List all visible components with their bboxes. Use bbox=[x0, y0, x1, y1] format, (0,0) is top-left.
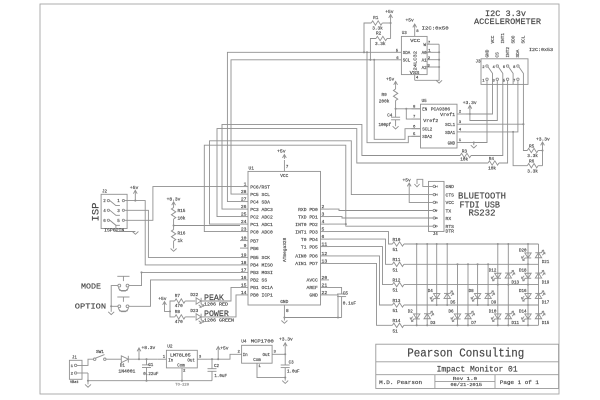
wire R7 to D22 bbox=[185, 300, 195, 302]
wire LED column D6 bbox=[457, 264, 459, 325]
svg-text:8: 8 bbox=[286, 309, 289, 314]
svg-text:+5v: +5v bbox=[406, 18, 415, 24]
wire ISP pin1 MISO bbox=[125, 201, 240, 265]
svg-text:Com: Com bbox=[253, 359, 261, 363]
wire LED rail 4 bbox=[404, 304, 539, 306]
U1 pin 24 PC1 ADC1 bbox=[240, 223, 248, 225]
svg-text:100pf: 100pf bbox=[379, 123, 392, 128]
resistor R3 10k bbox=[460, 153, 471, 157]
wire U3 address pins to ground bbox=[415, 44, 439, 80]
ground symbol below U1 bbox=[283, 318, 285, 321]
wire U1 PD4 to rail 2 bbox=[329, 239, 392, 264]
svg-text:PB6: PB6 bbox=[250, 246, 259, 252]
capacitor C5 0.1uF bbox=[337, 293, 346, 295]
svg-text:AREF: AREF bbox=[307, 285, 318, 291]
svg-text:R1: R1 bbox=[373, 16, 379, 21]
LED D4 bbox=[430, 294, 440, 302]
U1 pin 1 PC6/RST bbox=[240, 186, 248, 188]
svg-text:Vref1: Vref1 bbox=[440, 113, 456, 118]
wire LED column D7 bbox=[467, 264, 469, 325]
connector J4 FTDI bbox=[429, 181, 445, 231]
svg-text:D10: D10 bbox=[489, 310, 497, 314]
U3 pin 4 VSS bbox=[414, 75, 416, 81]
U2 pin 1 In bbox=[157, 358, 166, 360]
svg-text:7: 7 bbox=[286, 165, 289, 170]
svg-text:PB7: PB7 bbox=[250, 238, 259, 244]
U5 pin 7 Vref2 bbox=[412, 118, 421, 120]
svg-text:+3.3v: +3.3v bbox=[463, 100, 477, 106]
U4 pin 3 Out bbox=[272, 353, 285, 355]
wire EN line bbox=[396, 108, 421, 110]
svg-text:Impact Monitor 01: Impact Monitor 01 bbox=[437, 366, 518, 375]
U3 pin 7 W bbox=[427, 43, 439, 45]
svg-text:D6: D6 bbox=[449, 310, 455, 314]
node rail 3 junctions bbox=[497, 284, 499, 286]
node R5 junction bbox=[541, 149, 543, 151]
svg-text:PB4 MISO: PB4 MISO bbox=[250, 263, 273, 269]
svg-text:D22: D22 bbox=[190, 293, 198, 298]
J3 pin SCL bbox=[517, 65, 519, 67]
svg-text:Page 1 of 1: Page 1 of 1 bbox=[500, 380, 539, 386]
resistor R4 10k bbox=[488, 161, 499, 165]
U3 pin 1 A0 bbox=[427, 51, 439, 53]
svg-text:D12: D12 bbox=[489, 270, 497, 274]
wire R3 to J3 INT1 bbox=[471, 84, 503, 155]
svg-text:M.D. Pearson: M.D. Pearson bbox=[379, 380, 422, 386]
wire SCL 5V side to U5 SCL2 bbox=[374, 60, 420, 140]
wire U1 PD1 to J4 RX bbox=[329, 217, 433, 218]
node SDA drop junction bbox=[366, 51, 368, 53]
svg-text:D13: D13 bbox=[512, 281, 520, 285]
switch SW3 MODE button bbox=[117, 275, 129, 277]
J3 pin CS bbox=[496, 78, 498, 80]
svg-text:MODE: MODE bbox=[81, 283, 101, 291]
svg-text:D8: D8 bbox=[469, 290, 475, 294]
svg-text:27: 27 bbox=[241, 197, 247, 203]
svg-text:0.1uF: 0.1uF bbox=[343, 301, 357, 306]
U1 pin 18 PB4 MISO bbox=[240, 264, 248, 266]
wire J4 GND hook to ground bbox=[417, 179, 433, 186]
svg-text:17: 17 bbox=[241, 267, 247, 273]
wire J3 GND to ground bbox=[474, 84, 487, 142]
+5v supply at pullups bbox=[389, 15, 393, 18]
U2 pin 3 Out bbox=[197, 358, 207, 360]
LED D11 bbox=[505, 311, 515, 319]
wire ISP pin5 RST bbox=[125, 187, 240, 221]
U1 pin 2 RXD PD0 bbox=[321, 208, 330, 210]
svg-text:D7: D7 bbox=[471, 322, 477, 326]
wire R8 to D23 bbox=[185, 316, 195, 318]
wire CTS into J4 bbox=[429, 194, 433, 196]
wire RTS into J4 bbox=[429, 225, 433, 227]
svg-text:PB3 MOSI: PB3 MOSI bbox=[250, 270, 273, 276]
svg-text:AVCC: AVCC bbox=[307, 278, 318, 284]
U1 pin 8 GND stub bbox=[283, 305, 285, 318]
wire MODE to OPTION common bbox=[111, 286, 118, 307]
resistor R9 200k bbox=[393, 89, 397, 101]
node R9 EN junction bbox=[395, 108, 397, 110]
wire OPTION to PB2 SS bbox=[129, 280, 240, 306]
wire LED column D2 bbox=[416, 244, 418, 325]
U3 pin 6 SCL bbox=[391, 59, 401, 61]
svg-text:J1: J1 bbox=[72, 357, 78, 361]
svg-text:SCL1: SCL1 bbox=[445, 124, 456, 128]
svg-text:PC3 ADC3: PC3 ADC3 bbox=[250, 207, 273, 213]
svg-text:TXD PD1: TXD PD1 bbox=[298, 214, 318, 220]
svg-text:U3: U3 bbox=[402, 32, 408, 36]
U1 pin 5 INT1 PD3 bbox=[321, 231, 330, 233]
wire +5v to J4 VCC bbox=[409, 187, 433, 202]
svg-text:18: 18 bbox=[241, 260, 247, 266]
svg-text:VCC: VCC bbox=[280, 173, 288, 179]
svg-text:C3: C3 bbox=[289, 362, 295, 366]
node C1 junction bbox=[145, 358, 147, 360]
U1 pin 28 PC5 SCL bbox=[240, 193, 248, 195]
wire SCL1 to J3 bbox=[466, 84, 523, 124]
U2 pin 2 Com bbox=[181, 368, 183, 381]
svg-text:R4: R4 bbox=[489, 157, 495, 162]
svg-text:D2: D2 bbox=[408, 310, 414, 314]
+8.3v supply at divider bbox=[172, 202, 176, 205]
svg-text:AIN1 PD7: AIN1 PD7 bbox=[295, 261, 318, 267]
wire U5 GND to ground bbox=[466, 142, 474, 144]
svg-text:28: 28 bbox=[241, 189, 247, 195]
svg-text:1206 RED: 1206 RED bbox=[204, 302, 228, 308]
+5v supply at U3 bbox=[413, 24, 417, 27]
svg-text:D4: D4 bbox=[428, 290, 434, 294]
node MODE on MOSI line bbox=[140, 271, 142, 273]
svg-text:1N4001: 1N4001 bbox=[118, 370, 136, 374]
wire LED rail 2 bbox=[404, 263, 539, 265]
LED D2 bbox=[410, 314, 420, 322]
svg-text:D14: D14 bbox=[519, 310, 527, 314]
U3 pin 5 SDA bbox=[391, 51, 401, 53]
svg-text:C5: C5 bbox=[343, 292, 349, 297]
svg-text:9: 9 bbox=[244, 243, 247, 249]
svg-text:13: 13 bbox=[322, 258, 328, 264]
regulator U2 LM78L05 bbox=[166, 350, 197, 368]
U3 pin 2 A1 bbox=[427, 59, 439, 61]
svg-text:In: In bbox=[243, 354, 249, 358]
svg-text:D23: D23 bbox=[190, 309, 198, 314]
wire PC3 loop to INT1 bbox=[222, 124, 460, 209]
resistor R12 51 bbox=[392, 282, 404, 286]
svg-text:3.3k: 3.3k bbox=[375, 42, 386, 47]
svg-text:PB2 SS: PB2 SS bbox=[250, 278, 267, 284]
wire U1 PD7 to rail 5 bbox=[329, 263, 392, 325]
svg-text:24: 24 bbox=[241, 219, 247, 225]
svg-text:R11: R11 bbox=[393, 258, 401, 263]
svg-text:R16: R16 bbox=[178, 232, 186, 237]
J4 pin 6 RTS bbox=[433, 225, 435, 227]
svg-text:5: 5 bbox=[322, 227, 325, 233]
svg-text:A2: A2 bbox=[422, 67, 428, 71]
ground symbol at battery bbox=[87, 381, 89, 385]
J3 pin GND bbox=[486, 78, 488, 80]
svg-text:J3: J3 bbox=[476, 61, 482, 65]
U3 pin 8 VCC bbox=[414, 29, 416, 37]
svg-text:D1: D1 bbox=[120, 365, 126, 369]
svg-text:10: 10 bbox=[241, 236, 247, 242]
svg-text:R8: R8 bbox=[175, 310, 181, 315]
svg-text:ATmega328: ATmega328 bbox=[282, 237, 288, 262]
U1 pin 19 PB5 SCK bbox=[240, 256, 248, 258]
wire LED column D15 D17 D19 D21 bbox=[538, 244, 540, 325]
+5v supply at U1 VCC bbox=[283, 155, 287, 158]
svg-text:GND: GND bbox=[446, 184, 455, 190]
svg-text:+5v: +5v bbox=[220, 346, 229, 352]
U1 pin 14 PB0 ICP1 bbox=[240, 294, 248, 296]
svg-text:1206 GREEN: 1206 GREEN bbox=[204, 318, 234, 324]
wire PC1 loop to CTS bbox=[210, 141, 429, 224]
wire LED column D8 bbox=[477, 264, 479, 305]
node rail 4 junctions bbox=[436, 304, 438, 306]
svg-text:MCP1700: MCP1700 bbox=[251, 340, 274, 345]
capacitor C2 1.0uF bbox=[211, 359, 213, 369]
U1 pin 17 PB3 MOSI bbox=[240, 271, 248, 273]
svg-text:VBat: VBat bbox=[70, 381, 79, 385]
ground symbol at U3 bbox=[436, 80, 442, 83]
svg-text:R2: R2 bbox=[376, 32, 382, 37]
resistor R16 1k bbox=[173, 226, 175, 230]
svg-text:51: 51 bbox=[393, 248, 399, 253]
+5v supply at ISP bbox=[133, 190, 137, 193]
U1 pin 4 INT0 PD2 bbox=[321, 223, 330, 225]
wire U1 PD0 to J4 TX bbox=[329, 209, 433, 210]
J4 pin 5 RX bbox=[433, 217, 435, 219]
U1 pin 27 PC4 SDA bbox=[240, 201, 248, 203]
svg-text:RS232: RS232 bbox=[469, 209, 496, 219]
ground symbol below C3 bbox=[284, 378, 286, 381]
svg-text:TX: TX bbox=[446, 208, 452, 214]
svg-text:J4: J4 bbox=[433, 233, 439, 237]
wire CS pullup to 3.3v bbox=[470, 84, 497, 120]
U1 pin 15 PB1 OC1A bbox=[240, 286, 248, 288]
svg-text:+5v: +5v bbox=[277, 149, 286, 155]
LED D19 bbox=[535, 270, 545, 278]
switch SW1 bbox=[94, 358, 96, 360]
svg-text:+8.3v: +8.3v bbox=[167, 197, 181, 203]
svg-text:INT1: INT1 bbox=[501, 33, 506, 44]
svg-text:1.0uF: 1.0uF bbox=[214, 375, 227, 379]
svg-text:J2: J2 bbox=[102, 191, 108, 195]
svg-text:12: 12 bbox=[322, 251, 328, 257]
wire LED column D11 D13 bbox=[507, 244, 509, 325]
svg-text:PC5 SCL: PC5 SCL bbox=[250, 192, 270, 198]
U3 pin 3 A2 bbox=[427, 66, 439, 68]
svg-text:In: In bbox=[168, 360, 174, 364]
+5v supply at status LEDs bbox=[163, 302, 167, 305]
node Vref2 junction bbox=[405, 108, 407, 110]
wire LED column D3 bbox=[426, 244, 428, 325]
U1 pin 11 T1 PD5 bbox=[321, 246, 330, 248]
node INT0 junction bbox=[345, 223, 347, 225]
LED D7 bbox=[465, 311, 475, 319]
svg-text:D15: D15 bbox=[542, 322, 550, 326]
node +8.3v junction bbox=[138, 358, 140, 360]
node OPTION ground junction bbox=[110, 305, 112, 307]
wire SW1 to D1 bbox=[106, 358, 121, 360]
svg-text:16: 16 bbox=[241, 275, 247, 281]
mcu U1 ATmega328 bbox=[248, 171, 321, 305]
U1 pin 20 AVCC bbox=[321, 279, 330, 281]
node C3 ground junction bbox=[284, 377, 286, 379]
U5 pin 1 GND bbox=[457, 142, 466, 144]
svg-text:PB0 ICP1: PB0 ICP1 bbox=[250, 293, 273, 299]
LED D23 POWER 1206 GREEN bbox=[196, 314, 204, 324]
svg-text:D19: D19 bbox=[542, 281, 550, 285]
wire MOSI line to U1 PB3 bbox=[142, 271, 241, 273]
svg-text:A0: A0 bbox=[422, 52, 428, 56]
J3 pin INT1 bbox=[496, 65, 498, 67]
U5 pin 8 EN bbox=[412, 108, 421, 110]
svg-text:U4: U4 bbox=[241, 340, 247, 345]
LED D9 bbox=[485, 291, 495, 299]
svg-text:R13: R13 bbox=[393, 299, 401, 304]
svg-text:22: 22 bbox=[322, 290, 328, 296]
node SCL drop junction bbox=[373, 59, 375, 61]
LED D21 bbox=[535, 250, 545, 258]
+5v supply at J4 bbox=[407, 183, 411, 186]
resistor R11 51 bbox=[392, 262, 404, 266]
svg-text:+5v: +5v bbox=[130, 185, 139, 191]
resistor R6 3.3k bbox=[513, 132, 527, 166]
connector J3 accelerometer bbox=[481, 59, 528, 85]
resistor R14 51 bbox=[392, 323, 404, 327]
svg-text:SCL: SCL bbox=[522, 35, 527, 43]
svg-text:GND: GND bbox=[448, 142, 456, 146]
U1 pin 25 PC2 ADC2 bbox=[240, 216, 248, 218]
svg-text:PCA9306: PCA9306 bbox=[431, 107, 451, 112]
svg-text:3: 3 bbox=[322, 212, 325, 218]
svg-text:+5v: +5v bbox=[158, 296, 167, 302]
resistor R15 10k bbox=[173, 206, 175, 208]
svg-text:R5: R5 bbox=[529, 144, 535, 149]
svg-text:+5v: +5v bbox=[385, 9, 394, 15]
svg-text:SDA1: SDA1 bbox=[445, 132, 456, 136]
switch SW2 OPTION button bbox=[117, 296, 129, 298]
wire U1 PD2 INT0 to RTS net bbox=[329, 223, 346, 225]
svg-text:51: 51 bbox=[393, 289, 399, 294]
svg-text:AIN0 PD6: AIN0 PD6 bbox=[295, 254, 318, 260]
LED D6 bbox=[451, 314, 461, 322]
resistor R2 3.3k bbox=[370, 39, 376, 60]
wire SDA1 to J3 bbox=[466, 84, 518, 131]
connector J2 ISP6PIN bbox=[101, 194, 127, 228]
svg-text:R12: R12 bbox=[393, 278, 401, 283]
node ISP +5v junction bbox=[134, 200, 136, 202]
resistor R13 51 bbox=[392, 303, 404, 307]
svg-text:PB1 OC1A: PB1 OC1A bbox=[250, 285, 273, 291]
svg-text:25: 25 bbox=[241, 212, 247, 218]
LED D3 bbox=[424, 311, 434, 319]
svg-text:U5: U5 bbox=[422, 100, 428, 104]
level shifter U5 PCA9306 bbox=[421, 104, 458, 148]
U1 pin 22 GND bbox=[321, 294, 330, 296]
resistor R5 3.3k bbox=[523, 124, 527, 150]
svg-text:C2: C2 bbox=[214, 365, 220, 369]
svg-text:19: 19 bbox=[241, 252, 247, 258]
LED D18 bbox=[521, 273, 531, 281]
node R1 +5v junction bbox=[390, 22, 392, 24]
svg-text:VCC: VCC bbox=[446, 200, 455, 206]
svg-text:SW1: SW1 bbox=[96, 350, 104, 355]
node rail 2 junctions bbox=[456, 263, 458, 265]
svg-text:51: 51 bbox=[393, 268, 399, 273]
wire D22 to U1 PB1 bbox=[201, 287, 240, 301]
svg-text:SDA: SDA bbox=[516, 49, 521, 57]
svg-text:+5v: +5v bbox=[403, 177, 412, 183]
svg-text:4: 4 bbox=[322, 219, 325, 225]
svg-text:R3: R3 bbox=[462, 149, 468, 154]
svg-text:+3.3v: +3.3v bbox=[279, 337, 293, 343]
svg-text:20: 20 bbox=[322, 275, 328, 281]
svg-text:SCL2: SCL2 bbox=[422, 129, 433, 133]
node U1 ground junction bbox=[283, 316, 285, 318]
svg-text:0.22uF: 0.22uF bbox=[143, 373, 159, 377]
capacitor C4 100pf bbox=[395, 109, 397, 117]
svg-text:D3: D3 bbox=[430, 322, 436, 326]
svg-text:1: 1 bbox=[244, 182, 247, 188]
wire SDA 5V side to U5 SDA2 bbox=[367, 52, 421, 142]
wire R4 to J3 INT2 bbox=[499, 84, 508, 163]
ground symbol below C4 bbox=[393, 126, 399, 129]
svg-text:200k: 200k bbox=[379, 99, 390, 104]
svg-text:21: 21 bbox=[322, 282, 328, 288]
wire U1 PD3 to rail 1 bbox=[329, 232, 392, 244]
J3 pin SDO bbox=[506, 65, 508, 67]
U1 pin 26 PC3 ADC3 bbox=[240, 208, 248, 210]
J4 pin 4 TX bbox=[433, 209, 435, 211]
U5 pin 4 SDA1 bbox=[457, 131, 466, 133]
wire LED rail 5 bbox=[404, 324, 539, 326]
wire D23 to U1 PB0 bbox=[201, 295, 240, 317]
svg-text:2: 2 bbox=[322, 204, 325, 210]
svg-text:26: 26 bbox=[241, 204, 247, 210]
wire Vref2 tie to EN bbox=[406, 109, 420, 119]
wire SDA net PC4 to EEPROM bbox=[227, 52, 391, 201]
svg-text:51: 51 bbox=[393, 309, 399, 314]
diode D1 1N4001 bbox=[121, 356, 128, 363]
svg-text:3.3k: 3.3k bbox=[527, 170, 538, 175]
svg-text:R9: R9 bbox=[382, 93, 388, 98]
wire PC2 loop to INT2 bbox=[217, 129, 488, 217]
LED D15 bbox=[535, 311, 545, 319]
svg-text:Vref2: Vref2 bbox=[423, 119, 439, 124]
svg-text:TO-220: TO-220 bbox=[175, 384, 189, 388]
svg-text:470: 470 bbox=[175, 320, 183, 325]
title block bbox=[376, 344, 559, 388]
svg-text:14: 14 bbox=[241, 290, 247, 296]
node Vref1 junction bbox=[469, 113, 471, 115]
capacitor C1 0.22uF bbox=[146, 359, 148, 365]
node SDA1 junction bbox=[512, 131, 514, 133]
svg-text:R6: R6 bbox=[529, 160, 535, 165]
resistor R8 470 bbox=[170, 311, 175, 317]
svg-text:PC1 ADC1: PC1 ADC1 bbox=[250, 222, 273, 228]
svg-text:D18: D18 bbox=[519, 270, 527, 274]
resistor R7 470 bbox=[170, 301, 175, 311]
svg-text:D5: D5 bbox=[450, 302, 456, 306]
svg-text:+3.3v: +3.3v bbox=[536, 137, 550, 143]
LED D5 bbox=[444, 291, 454, 299]
svg-text:U2: U2 bbox=[167, 344, 173, 349]
svg-text:Com: Com bbox=[177, 365, 185, 369]
svg-text:A1: A1 bbox=[422, 60, 428, 64]
svg-text:INT0 PD2: INT0 PD2 bbox=[295, 222, 318, 228]
LED D22 PEAK 1206 RED bbox=[196, 298, 204, 308]
connector J1 battery bbox=[69, 360, 82, 379]
